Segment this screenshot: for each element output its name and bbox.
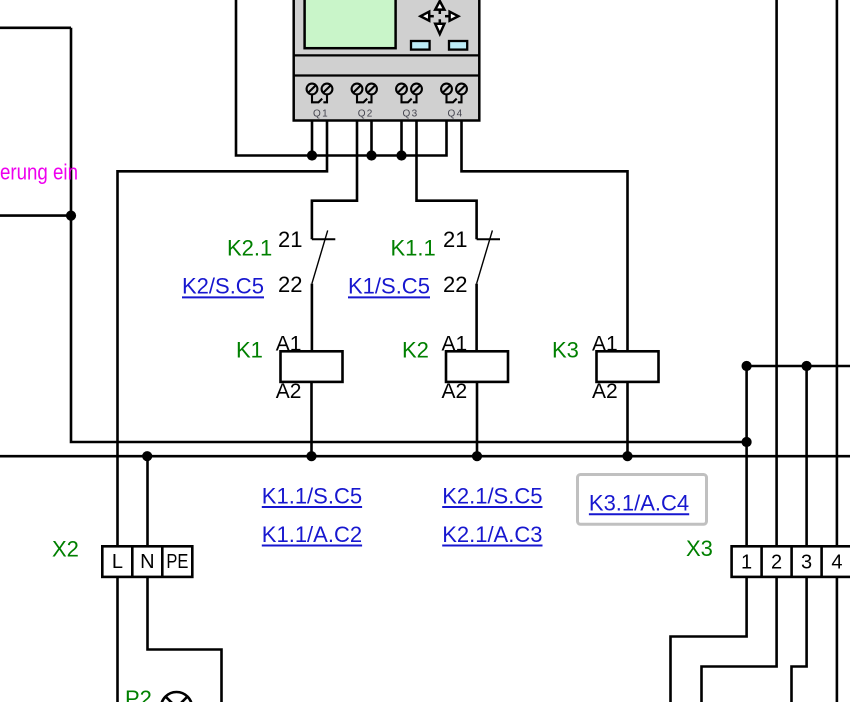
contact K1.1 fixed tick bbox=[477, 238, 500, 240]
svg-text:A2: A2 bbox=[276, 380, 302, 403]
cross-reference K1/S.C5 bbox=[348, 274, 430, 299]
coil K1 bbox=[281, 351, 343, 382]
cursor key left arrow bbox=[421, 12, 434, 21]
wire: contact K2.1 to coil K1 bbox=[311, 284, 314, 352]
svg-text:4: 4 bbox=[831, 552, 842, 574]
contact K1.1 blade bbox=[477, 230, 493, 283]
wire: coil K2 to N rail bbox=[476, 382, 479, 456]
coil K2 bbox=[446, 351, 508, 382]
svg-text:21: 21 bbox=[278, 227, 302, 252]
output Q1 screw terminal 2 bbox=[322, 84, 333, 95]
wire: supply drop from top into common rail, rail, and rise to Q4-1 bbox=[236, 0, 447, 156]
cursor key up arrow bbox=[435, 1, 444, 14]
svg-text:N: N bbox=[140, 551, 154, 573]
cross-reference K1.1/A.C2 bbox=[262, 522, 362, 547]
output Q3 screw terminal 1 bbox=[396, 84, 407, 95]
junction coil K2 on N rail bbox=[472, 451, 482, 461]
wire: Q4-2 down, right, down to coil K3 bbox=[462, 121, 628, 351]
svg-text:A1: A1 bbox=[592, 333, 618, 356]
svg-text:2: 2 bbox=[771, 552, 782, 574]
junction right feeder at X3-3 bbox=[802, 361, 812, 371]
junction on left feeder bbox=[66, 211, 76, 221]
output Q1 screw terminal 1 bbox=[307, 84, 318, 95]
lamp P2 symbol bbox=[161, 692, 192, 702]
svg-text:K1/S.C5: K1/S.C5 bbox=[348, 274, 430, 299]
output Q1 relay contact symbol bbox=[312, 95, 327, 103]
svg-text:Q3: Q3 bbox=[403, 109, 419, 120]
wire: coil K1 to N rail bbox=[310, 382, 313, 456]
output Q4 screw terminal 2 bbox=[456, 84, 467, 95]
junction coil K3 on N rail bbox=[622, 451, 632, 461]
terminal strip X2 bbox=[102, 546, 192, 577]
wire: coil K3 to N rail bbox=[626, 382, 629, 456]
output Q2 relay contact symbol bbox=[357, 95, 372, 103]
output Q2 screw terminal 1 bbox=[352, 84, 363, 95]
svg-text:K2.1: K2.1 bbox=[227, 236, 272, 261]
wire: left stub into feeder bbox=[0, 214, 71, 217]
wire: right feeder rail to edge bbox=[747, 365, 850, 368]
svg-text:A2: A2 bbox=[442, 380, 468, 403]
wire: X3-4 below strip bbox=[836, 577, 839, 702]
PLC module divider line lower bbox=[293, 74, 481, 76]
svg-text:P2: P2 bbox=[125, 686, 152, 702]
svg-text:A2: A2 bbox=[592, 380, 618, 403]
PLC module U1 LCD screen bbox=[305, 0, 396, 48]
svg-text:K2.1/A.C3: K2.1/A.C3 bbox=[442, 522, 542, 547]
junction N rail to X2-N bbox=[142, 451, 152, 461]
output Q3 relay contact symbol bbox=[402, 95, 417, 103]
cross-reference K2.1/A.C3 bbox=[442, 522, 542, 547]
wire: top left feeder horizontal bbox=[0, 26, 71, 29]
wire: X3-1 drop bbox=[745, 366, 748, 546]
svg-text:K3: K3 bbox=[552, 337, 579, 362]
wire: X3-4 drop from top bbox=[836, 0, 839, 546]
svg-text:A1: A1 bbox=[276, 333, 302, 356]
svg-text:K1.1: K1.1 bbox=[391, 236, 436, 261]
junction coil K1 on N rail bbox=[306, 451, 316, 461]
svg-text:X3: X3 bbox=[686, 536, 713, 561]
wire: contact K1.1 to coil K2 bbox=[475, 284, 478, 352]
svg-text:erung ein: erung ein bbox=[0, 160, 78, 185]
wire: Q1-1 stub to rail bbox=[311, 121, 314, 156]
terminal strip X3 bbox=[732, 546, 850, 577]
wire: X2 N down and right to lamp circuit bbox=[148, 577, 222, 702]
svg-text:K2.1/S.C5: K2.1/S.C5 bbox=[442, 483, 542, 508]
output Q4 relay contact symbol bbox=[447, 95, 462, 103]
wire: X3-3 drop bbox=[805, 366, 808, 546]
svg-text:PE: PE bbox=[166, 551, 188, 573]
output Q2 screw terminal 2 bbox=[366, 84, 377, 95]
N rail full width bbox=[0, 455, 850, 458]
OK button bbox=[449, 41, 467, 50]
cross-reference K2.1/S.C5 bbox=[442, 483, 542, 508]
wire: Q2-1 down, left, down to contact K2.1 bbox=[312, 121, 357, 239]
cross-reference K1.1/S.C5 bbox=[262, 483, 362, 508]
PLC module U1 body bbox=[294, 0, 480, 121]
coil K3 bbox=[597, 351, 659, 382]
cross-reference box K3.1/A.C4 bbox=[578, 475, 707, 525]
cursor key down arrow bbox=[435, 19, 444, 34]
svg-text:Q2: Q2 bbox=[358, 109, 374, 120]
junction left feeder meets X3-1 drop bbox=[742, 437, 752, 447]
PLC module divider line upper bbox=[293, 54, 481, 56]
cursor key right arrow bbox=[445, 12, 458, 21]
svg-text:21: 21 bbox=[443, 227, 467, 252]
wire: left vertical feeder down and across to X3-1 bbox=[71, 28, 747, 442]
wire: Q1-2 down, left and down to X2 terminal L bbox=[118, 121, 328, 546]
svg-text:22: 22 bbox=[443, 272, 467, 297]
wire: N rail down to X2 terminal N bbox=[146, 456, 149, 546]
svg-text:K2/S.C5: K2/S.C5 bbox=[182, 274, 264, 299]
wire: X2 L down to lamp circuit bbox=[116, 577, 119, 702]
svg-text:X2: X2 bbox=[52, 536, 79, 561]
wire: X3-2 below strip bbox=[702, 577, 777, 702]
svg-text:K2: K2 bbox=[402, 337, 429, 362]
wire: X3-2 drop from top bbox=[775, 0, 778, 546]
svg-text:Q1: Q1 bbox=[313, 109, 329, 120]
junction on rail at Q2-2 bbox=[366, 150, 376, 160]
svg-text:K1: K1 bbox=[236, 337, 263, 362]
svg-text:22: 22 bbox=[278, 272, 302, 297]
cross-reference K2/S.C5 bbox=[182, 274, 264, 299]
svg-text:3: 3 bbox=[801, 552, 812, 574]
svg-text:1: 1 bbox=[741, 552, 752, 574]
svg-text:K3.1/A.C4: K3.1/A.C4 bbox=[589, 491, 689, 516]
wire: Q3-2 down, right, down to contact K1.1 bbox=[417, 121, 477, 239]
contact K2.1 blade bbox=[312, 230, 328, 283]
wire: X3-1 below strip bbox=[671, 577, 747, 702]
output Q3 screw terminal 2 bbox=[411, 84, 422, 95]
contact K2.1 fixed tick bbox=[312, 238, 335, 240]
wire: Q3-1 stub to rail bbox=[400, 121, 403, 156]
ESC button bbox=[411, 41, 430, 50]
svg-text:L: L bbox=[112, 551, 123, 573]
junction on rail at Q1-1 bbox=[307, 150, 317, 160]
svg-text:K1.1/S.C5: K1.1/S.C5 bbox=[262, 483, 362, 508]
wire: Q2-2 stub to rail bbox=[370, 121, 373, 156]
svg-text:Q4: Q4 bbox=[448, 109, 464, 120]
junction on rail at Q3-1 bbox=[396, 150, 406, 160]
svg-text:A1: A1 bbox=[442, 333, 468, 356]
junction right feeder at X3-1 bbox=[742, 361, 752, 371]
wire: X3-3 below strip bbox=[792, 577, 807, 702]
svg-text:K1.1/A.C2: K1.1/A.C2 bbox=[262, 522, 362, 547]
output Q4 screw terminal 1 bbox=[441, 84, 452, 95]
